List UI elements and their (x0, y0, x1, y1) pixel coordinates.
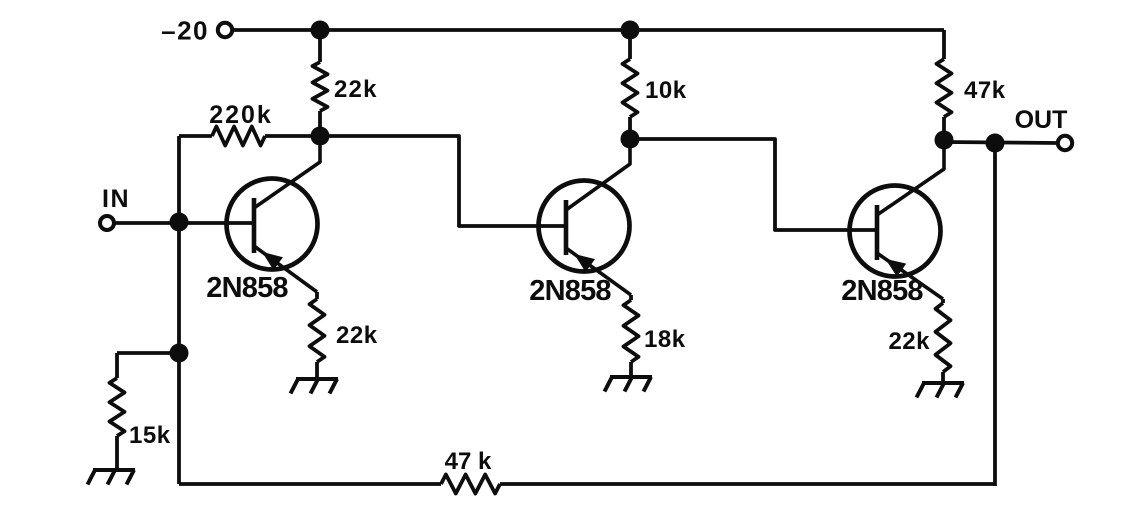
svg-text:2N858: 2N858 (841, 275, 923, 307)
wire: output node (944, 142, 1058, 143)
ground (Q1 emitter) (291, 379, 339, 394)
label R1 22k (334, 76, 378, 103)
wire: left vertical (220k / input / 15k / bottom rail) (177, 136, 181, 484)
svg-text:–20: –20 (161, 16, 209, 46)
terminal OUT (1058, 136, 1072, 150)
node: output/feedback junction (986, 134, 1005, 153)
label R9 47k (445, 448, 492, 475)
wire: feedback vertical from output (993, 143, 997, 486)
transistor Q2 2N858 (539, 139, 632, 295)
svg-text:15k: 15k (129, 422, 171, 449)
svg-text:IN: IN (102, 185, 130, 213)
resistor R2 22k (emitter Q1) (310, 292, 325, 378)
resistor R7 22k (emitter Q3) (936, 299, 951, 382)
label Q2 2N858 (529, 275, 611, 307)
label Q1 2N858 (206, 272, 288, 304)
node: input junction (170, 213, 189, 232)
label OUT (1015, 106, 1068, 134)
svg-text:OUT: OUT (1015, 106, 1068, 134)
terminal -20 (218, 23, 232, 37)
ground (15k) (88, 470, 136, 485)
resistor R3 220k (feedback Q1 base) (179, 127, 320, 146)
terminal IN (100, 216, 114, 230)
svg-text:2N858: 2N858 (206, 272, 288, 304)
wire: IN to Q1 base (114, 221, 254, 225)
wire: junction to 15k (117, 351, 179, 355)
resistor R4 10k (collector load Q2) (623, 30, 638, 139)
resistor R9 47k (feedback) (441, 475, 500, 494)
top supply rail (233, 28, 944, 32)
transistor Q3 2N858 (850, 140, 945, 299)
resistor R6 47k (collector load Q3) (937, 30, 952, 140)
wire: Q2 collector to Q3 base (630, 139, 878, 230)
label R4 10k (645, 77, 687, 104)
node: Q3 collector junction (935, 131, 954, 150)
resistor R5 18k (emitter Q2) (624, 295, 639, 376)
svg-text:22k: 22k (334, 76, 378, 103)
label -20 (161, 16, 209, 46)
wire: Q1 collector to Q2 base (320, 136, 567, 226)
node: Q1 collector junction (311, 127, 330, 146)
junction top rail / R1 (311, 21, 330, 40)
svg-text:18k: 18k (644, 326, 686, 353)
label R8 15k (129, 422, 171, 449)
ground (Q2 emitter) (605, 377, 653, 392)
label R6 47k (964, 77, 1006, 104)
label IN (102, 185, 130, 213)
label R5 18k (644, 326, 686, 353)
svg-text:2N858: 2N858 (529, 275, 611, 307)
svg-text:22k: 22k (336, 322, 378, 349)
resistor R1 22k (collector load Q1) (313, 30, 328, 136)
svg-text:220k: 220k (209, 101, 273, 129)
junction top rail / R4 (621, 21, 640, 40)
transistor Q1 2N858 (227, 136, 321, 292)
label R7 22k (888, 328, 930, 355)
node: 15k junction (170, 344, 189, 363)
resistor R8 15k (input divider) (110, 353, 125, 469)
svg-text:10k: 10k (645, 77, 687, 104)
label R3 220k (209, 101, 273, 129)
svg-text:47k: 47k (964, 77, 1006, 104)
node: Q2 collector junction (621, 130, 640, 149)
svg-text:22k: 22k (888, 328, 930, 355)
label Q3 2N858 (841, 275, 923, 307)
wire: bottom feedback rail (179, 482, 995, 486)
svg-text:47 k: 47 k (445, 448, 492, 475)
ground (Q3 emitter) (917, 383, 965, 398)
label R2 22k (336, 322, 378, 349)
